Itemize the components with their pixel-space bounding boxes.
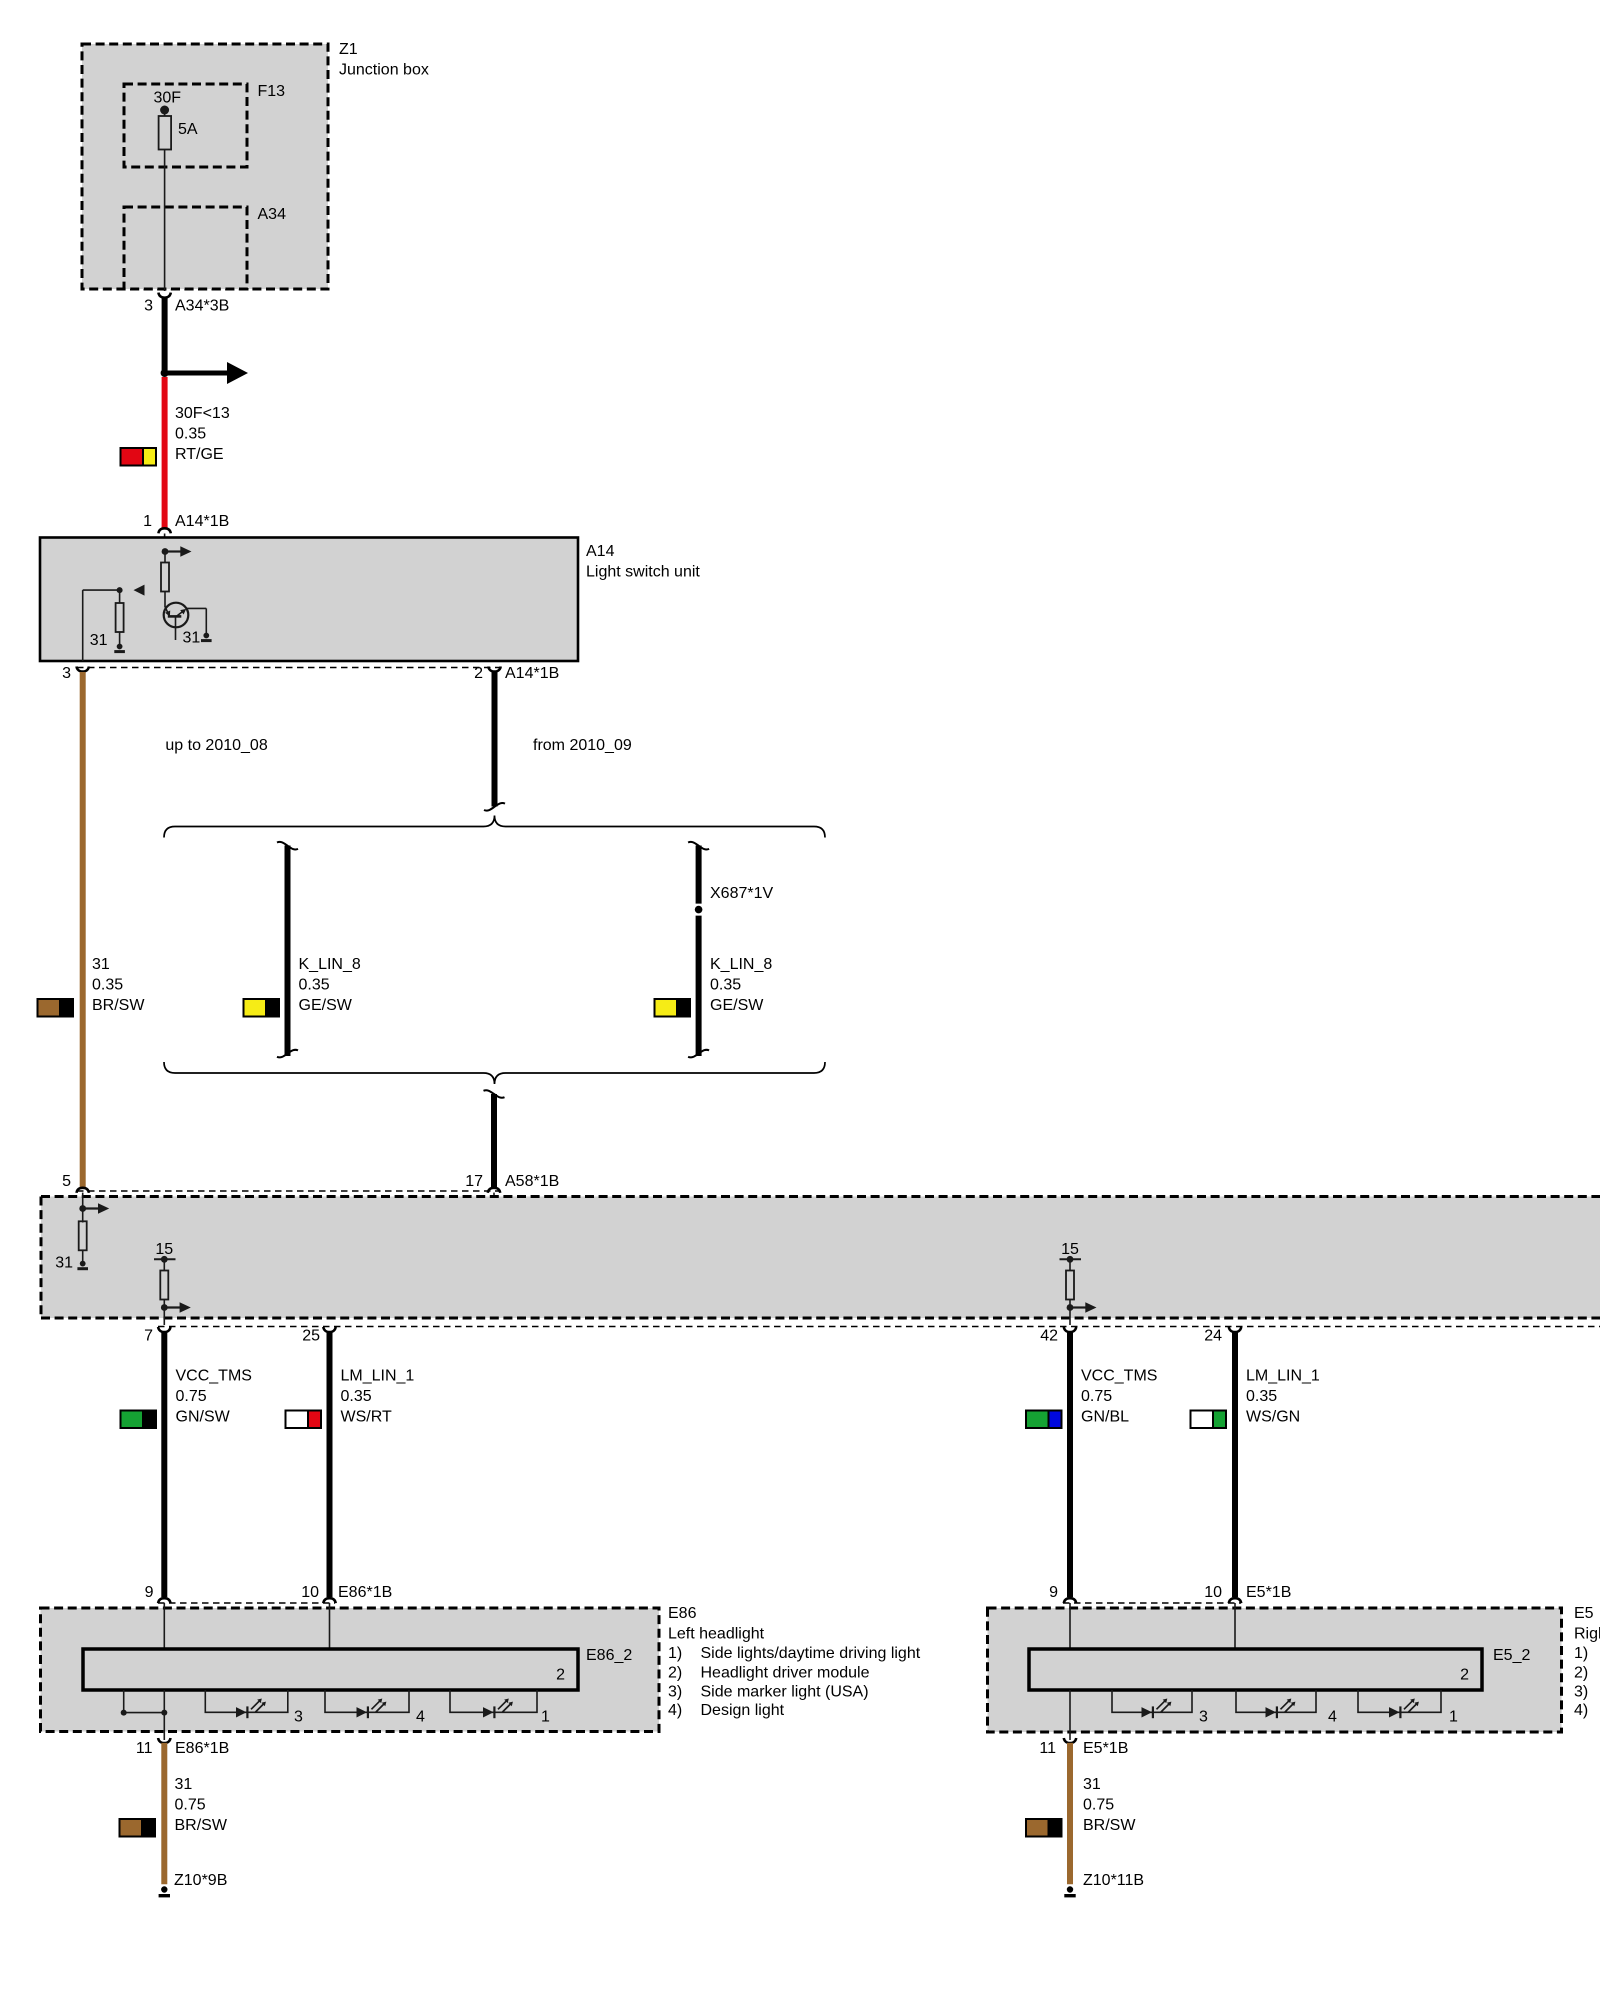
svg-text:15: 15 [155,1241,173,1258]
svg-text:1): 1) [1574,1645,1588,1662]
svg-text:0.35: 0.35 [175,426,206,443]
svg-text:0.35: 0.35 [710,977,741,994]
svg-text:0.75: 0.75 [1083,1797,1114,1814]
svg-text:2: 2 [474,665,483,682]
svg-text:42: 42 [1040,1328,1058,1345]
svg-text:9: 9 [145,1584,154,1601]
svg-text:up to 2010_08: up to 2010_08 [165,737,267,754]
svg-text:Z10*9B: Z10*9B [174,1872,227,1889]
svg-text:LM_LIN_1: LM_LIN_1 [341,1368,415,1385]
svg-text:E5*1B: E5*1B [1246,1584,1291,1601]
svg-text:Design light: Design light [701,1702,785,1719]
svg-text:31: 31 [92,956,110,973]
svg-text:5A: 5A [178,121,198,138]
svg-text:3: 3 [1199,1709,1208,1726]
svg-text:A58*1B: A58*1B [505,1173,559,1190]
svg-text:E5*1B: E5*1B [1083,1740,1128,1757]
svg-text:E86*1B: E86*1B [175,1740,229,1757]
svg-text:Z1: Z1 [339,41,358,58]
svg-text:BR/SW: BR/SW [1083,1817,1136,1834]
svg-text:1): 1) [668,1645,682,1662]
svg-text:31: 31 [1083,1776,1101,1793]
svg-text:E86: E86 [668,1605,697,1622]
svg-text:0.75: 0.75 [176,1388,207,1405]
svg-text:A14*1B: A14*1B [505,665,559,682]
svg-text:4): 4) [668,1702,682,1719]
svg-text:0.75: 0.75 [175,1797,206,1814]
svg-text:31: 31 [55,1255,73,1272]
svg-text:11: 11 [136,1740,153,1757]
svg-text:0.35: 0.35 [92,977,123,994]
svg-text:K_LIN_8: K_LIN_8 [710,956,772,973]
svg-text:Left headlight: Left headlight [668,1626,765,1643]
svg-text:A14: A14 [586,543,615,560]
svg-text:from 2010_09: from 2010_09 [533,737,632,754]
svg-text:VCC_TMS: VCC_TMS [176,1368,252,1385]
svg-text:2: 2 [556,1667,565,1684]
svg-text:3): 3) [1574,1684,1588,1701]
svg-text:GE/SW: GE/SW [299,997,353,1014]
svg-text:Light switch unit: Light switch unit [586,564,700,581]
svg-text:E5: E5 [1574,1605,1594,1622]
svg-text:3: 3 [294,1709,303,1726]
svg-text:1: 1 [143,513,152,530]
svg-text:LM_LIN_1: LM_LIN_1 [1246,1368,1320,1385]
svg-text:3): 3) [668,1684,682,1701]
svg-text:7: 7 [144,1328,153,1345]
svg-text:10: 10 [301,1584,319,1601]
svg-text:0.75: 0.75 [1081,1388,1112,1405]
svg-text:2): 2) [1574,1665,1588,1682]
svg-text:F13: F13 [258,83,286,100]
svg-text:X687*1V: X687*1V [710,885,773,902]
svg-text:31: 31 [183,630,201,647]
svg-text:GE/SW: GE/SW [710,997,764,1014]
svg-text:0.35: 0.35 [299,977,330,994]
svg-text:4: 4 [1328,1709,1337,1726]
svg-text:1: 1 [541,1709,550,1726]
svg-text:WS/RT: WS/RT [341,1409,392,1426]
svg-text:17: 17 [465,1173,483,1190]
svg-text:BR/SW: BR/SW [175,1817,228,1834]
svg-text:31: 31 [90,632,108,649]
svg-text:25: 25 [302,1328,320,1345]
svg-text:A34*3B: A34*3B [175,298,229,315]
svg-text:10: 10 [1204,1584,1222,1601]
svg-text:VCC_TMS: VCC_TMS [1081,1368,1157,1385]
svg-text:1: 1 [1449,1709,1458,1726]
svg-text:A34: A34 [258,206,287,223]
svg-text:2: 2 [1460,1667,1469,1684]
svg-text:E86*1B: E86*1B [338,1584,392,1601]
svg-text:WS/GN: WS/GN [1246,1409,1300,1426]
svg-text:Right headlight: Right headlight [1574,1626,1600,1643]
svg-text:BR/SW: BR/SW [92,997,145,1014]
svg-text:4: 4 [416,1709,425,1726]
svg-text:30F<13: 30F<13 [175,405,230,422]
svg-text:Z10*11B: Z10*11B [1083,1872,1144,1889]
svg-text:0.35: 0.35 [1246,1388,1277,1405]
svg-text:Headlight driver module: Headlight driver module [701,1665,870,1682]
svg-text:2): 2) [668,1665,682,1682]
svg-text:RT/GE: RT/GE [175,446,224,463]
svg-text:9: 9 [1049,1584,1058,1601]
svg-text:Side marker light (USA): Side marker light (USA) [701,1684,869,1701]
svg-text:4): 4) [1574,1702,1588,1719]
svg-text:3: 3 [144,298,153,315]
svg-text:GN/BL: GN/BL [1081,1409,1129,1426]
svg-text:5: 5 [62,1173,71,1190]
svg-text:A14*1B: A14*1B [175,513,229,530]
svg-text:Junction box: Junction box [339,62,429,79]
svg-text:E5_2: E5_2 [1493,1647,1530,1664]
svg-text:GN/SW: GN/SW [176,1409,231,1426]
svg-text:30F: 30F [154,90,182,107]
svg-text:15: 15 [1061,1241,1079,1258]
svg-text:K_LIN_8: K_LIN_8 [299,956,361,973]
svg-text:E86_2: E86_2 [586,1647,632,1664]
svg-text:24: 24 [1204,1328,1222,1345]
svg-text:11: 11 [1039,1740,1056,1757]
svg-text:31: 31 [175,1776,193,1793]
svg-text:3: 3 [62,665,71,682]
svg-text:Side lights/daytime driving li: Side lights/daytime driving light [701,1645,921,1662]
svg-text:0.35: 0.35 [341,1388,372,1405]
